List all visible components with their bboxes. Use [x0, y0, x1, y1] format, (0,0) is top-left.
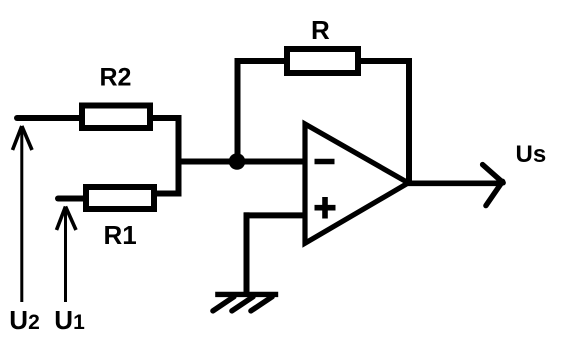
wire: non-inverting input to ground drop	[244, 212, 303, 218]
source arrow U2	[13, 126, 33, 302]
op-amp non-inverting input plus sign	[315, 197, 336, 219]
wire: input U1 to R1 left lead	[58, 196, 86, 202]
wire: R1 right lead to junction column	[154, 191, 182, 197]
wire: feedback top run to resistor R	[235, 58, 288, 64]
wire: feedback drop to op-amp output	[406, 61, 412, 183]
svg-text:R1: R1	[104, 220, 137, 250]
wire: vertical junction column joining R2 and R1 outputs	[176, 115, 182, 197]
source arrow U1	[57, 207, 77, 303]
wire: input U2 to R2 left lead	[17, 115, 82, 121]
op-amp U1 triangle	[305, 124, 408, 243]
op-amp inverting input minus sign	[315, 159, 335, 165]
resistor R	[287, 49, 358, 73]
wire: summing node to op-amp inverting input	[176, 159, 303, 165]
ground	[213, 294, 278, 311]
wire: ground drop	[244, 212, 250, 294]
resistor R2	[82, 106, 150, 129]
svg-text:R: R	[311, 15, 330, 45]
svg-text:R2: R2	[100, 64, 132, 92]
node: summing junction dot	[229, 153, 246, 170]
output arrowhead	[483, 165, 504, 206]
resistor R1	[86, 187, 154, 209]
wire: op-amp output	[408, 181, 500, 187]
wire: R2 right lead to junction column	[150, 115, 182, 121]
svg-text:Us: Us	[516, 141, 547, 168]
wire: feedback riser from summing node up	[235, 58, 241, 162]
wire: R right lead to feedback drop	[358, 58, 412, 64]
